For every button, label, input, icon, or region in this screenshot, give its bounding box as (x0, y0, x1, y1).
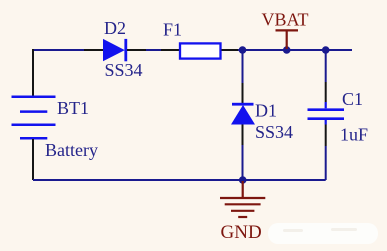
wire top rail (238, 49, 352, 51)
wire bottom rail (33, 179, 326, 181)
capacitor C1 (308, 102, 345, 125)
watermark blob (268, 223, 378, 244)
wire D2 to F1 (146, 49, 161, 51)
node junction C1 (322, 46, 330, 54)
node junction D1/top (239, 46, 247, 54)
pin C1 top (325, 82, 327, 102)
wire top-left horizontal (33, 49, 84, 51)
pin F1 left (161, 49, 179, 51)
svg-text:SS34: SS34 (255, 122, 293, 142)
diode D1 (231, 103, 255, 125)
wire left vertical (battery top pin) (32, 49, 34, 97)
wire C1 upper (325, 50, 327, 82)
pin D1 anode (242, 125, 244, 146)
svg-text:F1: F1 (163, 19, 182, 39)
svg-text:C1: C1 (342, 89, 363, 109)
wire C1 lower (325, 146, 327, 180)
pin F1 right (222, 49, 239, 51)
pin D2 cathode (127, 49, 146, 51)
battery BT1 (12, 97, 56, 138)
node junction VBAT (283, 46, 291, 54)
node junction GND (239, 176, 247, 184)
pin D1 cathode (242, 83, 244, 103)
svg-text:SS34: SS34 (105, 60, 143, 80)
power VBAT symbol (276, 30, 299, 49)
wire D1 lower (242, 145, 244, 180)
svg-text:GND: GND (221, 222, 262, 243)
diode D2 (103, 39, 127, 61)
wire D1 upper (242, 50, 244, 83)
fuse F1 (180, 43, 221, 58)
pin C1 bottom (325, 125, 327, 147)
ground GND symbol (220, 181, 265, 217)
svg-text:VBAT: VBAT (262, 10, 309, 30)
pin D2 anode (84, 49, 103, 51)
svg-text:D1: D1 (255, 101, 277, 121)
svg-text:BT1: BT1 (57, 98, 89, 118)
svg-text:Battery: Battery (45, 140, 98, 160)
svg-text:D2: D2 (104, 18, 126, 38)
pin battery bottom (32, 139, 34, 180)
svg-text:1uF: 1uF (340, 125, 368, 145)
